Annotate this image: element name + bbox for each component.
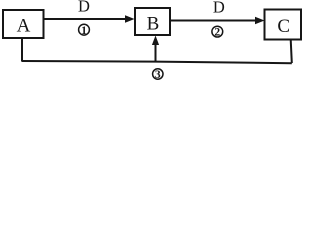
wire drop from A to bottom rail bbox=[21, 38, 23, 62]
svg-text:2: 2 bbox=[214, 27, 220, 39]
wire arrow B to C bbox=[171, 17, 265, 25]
svg-text:3: 3 bbox=[155, 69, 161, 81]
svg-text:C: C bbox=[277, 16, 290, 37]
svg-text:A: A bbox=[17, 16, 31, 37]
bottom rail wire bbox=[22, 61, 292, 63]
svg-text:D: D bbox=[78, 0, 90, 16]
box A bbox=[3, 10, 44, 38]
svg-text:B: B bbox=[147, 13, 160, 34]
box B bbox=[135, 8, 170, 35]
node 1 circled bbox=[79, 24, 90, 36]
node 3 circled bbox=[153, 69, 163, 81]
svg-text:D: D bbox=[213, 0, 225, 16]
wire drop from C to bottom rail bbox=[291, 40, 292, 64]
wire arrow A to B bbox=[44, 15, 135, 23]
wire arrow up into B bbox=[152, 36, 159, 62]
node 2 circled bbox=[212, 26, 223, 39]
svg-text:1: 1 bbox=[81, 25, 87, 37]
box C bbox=[265, 10, 302, 40]
